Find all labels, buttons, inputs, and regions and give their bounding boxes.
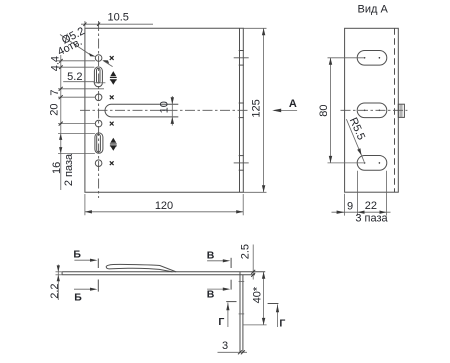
horizontal centerline (80, 109, 249, 111)
dim 9/22 line (332, 211, 391, 213)
R5.5 leader (346, 119, 364, 162)
leader O5.2 line (60, 35, 91, 56)
svg-text:3: 3 (222, 340, 228, 352)
hole 3 (95, 120, 102, 127)
section V cut bottom (230, 280, 232, 290)
svg-text:Вид А: Вид А (358, 3, 389, 15)
plate bottom line (62, 274, 255, 276)
dim 125 line (263, 28, 265, 192)
section V cut top (230, 258, 232, 268)
flange tick 2 (239, 313, 245, 315)
spring tab (106, 264, 176, 271)
chain ext hole2 (58, 96, 95, 98)
svg-text:2.5: 2.5 (240, 244, 252, 259)
svg-text:20: 20 (49, 103, 61, 115)
svg-text:В: В (207, 250, 215, 262)
dim 9/22 ext left (344, 194, 346, 216)
svg-text:40*: 40* (252, 286, 264, 303)
slot 1 inner obround (97, 68, 101, 83)
chain ext 7 top (58, 88, 104, 90)
plate top line (62, 271, 265, 273)
section B cut top (97, 259, 99, 269)
fold slot ticks top (239, 50, 244, 52)
slot 2 outer obround (95, 133, 103, 153)
slot 2 inner obround (97, 134, 101, 152)
left edge extension up (84, 21, 86, 28)
leader O5.2 tail (104, 61, 113, 67)
flange tick 1 (239, 281, 245, 283)
dim 2.2 line (57, 265, 59, 301)
svg-text:В: В (207, 289, 215, 301)
chain ext hole3 (58, 123, 95, 125)
fold slot top center dash (234, 57, 249, 59)
dim 120 extensions (84, 194, 86, 215)
svg-text:2.2: 2.2 (49, 283, 61, 298)
plate outline (85, 28, 243, 192)
dim 4.4 slashes (59, 59, 62, 63)
svg-text:Б: Б (73, 249, 81, 261)
section G left (226, 301, 236, 303)
fold slot bottom center dash (234, 162, 249, 164)
staking symbol slot 1 (110, 71, 117, 85)
slot 1 outer obround (94, 67, 102, 87)
label 5.2 shelf (63, 81, 94, 83)
left end extensions (56, 271, 63, 273)
view arrow A (274, 109, 297, 111)
svg-text:16: 16 (51, 162, 63, 174)
svg-text:10.5: 10.5 (107, 11, 128, 23)
svg-text:7: 7 (49, 89, 61, 95)
flange slot 1 (357, 50, 387, 65)
dim 10.5 line (81, 23, 153, 25)
dim 9/22 ext mid (357, 171, 359, 216)
svg-text:125: 125 (251, 99, 263, 117)
fold slot ticks bottom (239, 155, 244, 157)
flange slot 3 (357, 156, 387, 171)
fold slot ticks middle (239, 102, 244, 104)
fold line (inner right edge) (239, 28, 241, 192)
vertical centerline (98, 21, 100, 198)
dim 16 arrows (59, 134, 62, 140)
dim 10 line (171, 96, 173, 126)
slot 1 end cross tick (94, 82, 106, 84)
dim 80 ext top (328, 57, 365, 59)
svg-text:Б: Б (74, 291, 82, 303)
top edge extension right (243, 27, 266, 29)
svg-text:5.2: 5.2 (67, 71, 82, 83)
dim 16 ext bottom (58, 153, 95, 155)
dim 120 line (85, 211, 243, 213)
section G right (268, 303, 279, 305)
svg-text:9: 9 (347, 201, 353, 213)
flange side view (239, 272, 241, 353)
svg-text:10: 10 (158, 101, 170, 113)
dim 9/22 ext right (386, 171, 388, 216)
dim 40 ext bottom (243, 324, 267, 326)
central open slot (105, 104, 178, 117)
svg-text:А: А (289, 98, 297, 110)
svg-text:Г: Г (218, 316, 224, 328)
plate left end (61, 272, 63, 275)
dim 80 line (330, 58, 332, 163)
hole 1 (95, 55, 102, 62)
dim 80 ext bottom (328, 162, 365, 164)
svg-text:4.4: 4.4 (50, 56, 62, 71)
x mark hole 2 (110, 95, 114, 99)
flange bend dashed line (394, 28, 396, 192)
svg-text:22: 22 (365, 200, 377, 212)
hole 4 (95, 160, 102, 167)
chain dim line (60, 55, 62, 190)
bottom edge extension right (243, 191, 266, 193)
x mark hole 3 (110, 122, 114, 126)
dim 3 line (218, 351, 248, 353)
x mark hole 1 (110, 56, 114, 60)
flange outline (345, 28, 399, 192)
svg-text:80: 80 (318, 104, 330, 116)
dim 40 line (263, 272, 265, 325)
dim 4.4 extensions (57, 60, 95, 62)
side tab (398, 104, 404, 117)
view A centerline (341, 109, 408, 111)
flange slot 2 (357, 103, 387, 118)
x mark hole 4 (110, 161, 114, 165)
svg-text:3 паза: 3 паза (355, 213, 388, 225)
hole 2 (95, 94, 102, 101)
svg-text:Г: Г (279, 318, 285, 330)
svg-text:2 паза: 2 паза (63, 153, 75, 186)
staking symbol slot 2 (110, 138, 117, 151)
section B cut bottom (97, 280, 99, 292)
dim 2.5 line (252, 245, 254, 280)
dim 16 ext top (58, 133, 95, 135)
chain slashes (59, 87, 63, 91)
svg-text:120: 120 (155, 200, 173, 212)
